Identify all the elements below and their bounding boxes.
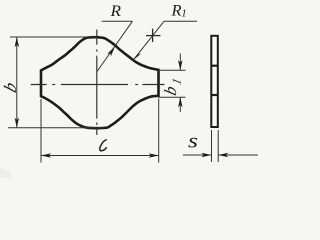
horizontal centerline [31,84,165,86]
dimension b: dimension line [16,37,18,128]
dimension b1: upper arrowhead [178,60,183,70]
dimension s: right extension line [217,130,219,162]
radius R1 arrowhead [134,52,142,60]
svg-text:1: 1 [181,8,187,20]
dimension b1: lower dimension line [179,97,181,112]
dimension b: top arrowhead [15,37,19,47]
dimension s: left arrowhead [201,153,211,158]
dimension s: left dimension line [183,154,212,156]
main plate outline [41,37,159,128]
radius R1 leader line [134,21,165,59]
dimension b: top extension line [10,36,96,38]
radius R arrowhead [107,47,115,57]
side view plate rectangle [211,36,218,127]
radius R1 leader shelf [164,20,197,22]
dimension l: left arrowhead [41,153,51,158]
dimension b1: upper dimension line [179,54,181,71]
dimension b: bottom extension line [8,127,104,129]
dimension s: right arrowhead [218,153,228,158]
vertical centerline [96,30,98,135]
radius R leader shelf [102,20,133,22]
dimension l: right arrowhead [149,153,159,158]
dimension l: right extension line [158,99,160,163]
svg-text:R: R [109,3,121,20]
dimension s: left extension line [211,130,213,162]
svg-text:s: s [188,129,198,153]
label b1 (rotated) [161,77,183,98]
label l (script ell) [100,140,107,151]
radius R leader line [97,21,132,71]
dimension l: left extension line [40,99,42,163]
dimension s: right dimension line [218,154,258,156]
radius R1 center cross mark [146,35,161,37]
side view upper edge tick [211,65,218,67]
dimension b1: top extension line [159,69,186,71]
svg-text:R: R [170,3,181,20]
scan smudge bottom-left [0,168,11,178]
side view lower edge tick [211,94,218,96]
dimension l: dimension line [41,155,159,157]
dimension b1: lower arrowhead [178,97,183,107]
dimension b1: bottom extension line [159,96,186,98]
dimension b: bottom arrowhead [15,118,19,128]
